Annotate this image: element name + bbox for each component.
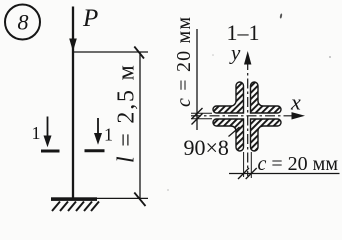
bottom tick [134,193,145,207]
vertical dimension line [139,52,141,198]
svg-text:c = 20 мм: c = 20 мм [258,153,339,175]
section mark right [85,118,114,151]
scan speck [280,13,283,18]
angle top-left [213,82,243,113]
angle bottom-right [251,119,282,151]
column (vertical bar with load line) [72,7,74,200]
svg-text:l = 2,5 м: l = 2,5 м [114,63,140,163]
bottom dimension c=20mm [229,152,340,179]
force P arrowhead [69,39,77,52]
leader line [229,127,240,137]
angle top-right [251,82,282,113]
top tick [134,47,144,59]
svg-text:90×8: 90×8 [184,135,229,160]
svg-text:c = 20 мм: c = 20 мм [173,16,195,107]
ground hatching [52,202,99,212]
ground bar [51,197,97,201]
problem number circle [5,5,40,40]
top dimension line [73,51,148,53]
svg-text:P: P [82,5,98,32]
left dimension c=20mm [173,16,212,130]
y axis [247,60,249,176]
svg-text:x: x [290,90,301,115]
svg-text:1: 1 [104,125,113,145]
x axis [191,115,298,117]
angle bottom-left [213,119,243,151]
section mark left [32,117,60,152]
svg-text:1: 1 [32,123,41,143]
svg-text:8: 8 [18,10,29,35]
bottom dimension line [95,197,148,199]
svg-text:y: y [229,41,241,65]
